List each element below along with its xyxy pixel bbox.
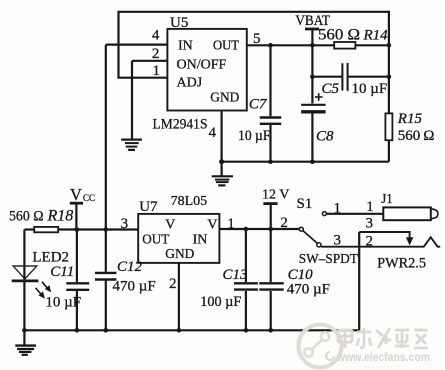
switch S1 pole contact bbox=[299, 227, 303, 231]
svg-text:U5: U5 bbox=[170, 15, 188, 31]
wire IN riser to Vcc rail bbox=[105, 45, 107, 272]
svg-text:560 Ω: 560 Ω bbox=[398, 128, 435, 144]
svg-text:2: 2 bbox=[280, 215, 288, 231]
op-amp U5 regulator box bbox=[167, 29, 246, 111]
svg-text:PWR2.5: PWR2.5 bbox=[377, 256, 426, 272]
label Vcc bbox=[70, 185, 95, 204]
wire U5 GND pin down bbox=[221, 111, 223, 177]
capacitor C8 plates bbox=[301, 105, 325, 112]
svg-text:1: 1 bbox=[153, 63, 161, 79]
svg-text:GND: GND bbox=[165, 247, 194, 262]
svg-text:J1: J1 bbox=[381, 192, 393, 207]
svg-text:VBAT: VBAT bbox=[295, 13, 330, 29]
power symbol 12V bbox=[263, 204, 277, 229]
wire R14 right to rail bbox=[355, 44, 389, 46]
wire ON/OFF pin 2 bbox=[132, 60, 167, 62]
wire ground rail of regulator section bbox=[222, 161, 389, 163]
watermark logo circle bbox=[299, 325, 342, 368]
capacitor C10 plates bbox=[259, 283, 283, 289]
svg-text:C13: C13 bbox=[223, 267, 248, 283]
power symbol Vcc bbox=[70, 203, 83, 229]
capacitor C11 upper lead bbox=[76, 230, 78, 283]
svg-text:1: 1 bbox=[366, 199, 374, 215]
capacitor C10 upper lead bbox=[270, 229, 272, 282]
capacitor C7 upper lead bbox=[269, 45, 271, 116]
svg-text:C8: C8 bbox=[316, 129, 334, 145]
svg-text:www.elecfans.com: www.elecfans.com bbox=[336, 352, 430, 364]
svg-text:IN: IN bbox=[178, 39, 193, 54]
switch S1 blade bbox=[303, 231, 317, 244]
wire C5 row right bbox=[349, 76, 389, 78]
wire top feedback rail bbox=[119, 11, 389, 13]
svg-text:R14: R14 bbox=[363, 28, 389, 44]
connector J1 barrel body bbox=[383, 207, 431, 220]
svg-text:GND: GND bbox=[210, 91, 239, 106]
power symbol VBAT bbox=[305, 29, 319, 45]
svg-text:V: V bbox=[165, 218, 175, 233]
wire Vcc rail left bbox=[24, 228, 34, 230]
svg-text:12 V: 12 V bbox=[262, 188, 289, 203]
plus sign of C8 bbox=[315, 93, 323, 101]
svg-text:10 µF: 10 µF bbox=[238, 128, 271, 144]
ground bottom-left bbox=[15, 346, 36, 355]
connector J1 barrel tip arc bbox=[431, 209, 438, 219]
svg-text:OUT: OUT bbox=[213, 39, 239, 54]
svg-text:4: 4 bbox=[209, 125, 217, 141]
wire right rail upper bbox=[388, 11, 390, 114]
svg-text:ADJ: ADJ bbox=[177, 76, 203, 91]
capacitor C11 lower lead bbox=[76, 291, 78, 330]
LED2 arrow 1 bbox=[42, 282, 51, 292]
wire S1 pin1 to J1 bbox=[326, 213, 383, 215]
capacitor C5 plates bbox=[342, 63, 347, 91]
resistor R14 bbox=[334, 42, 355, 49]
svg-text:ON/OFF: ON/OFF bbox=[177, 58, 227, 73]
wire LED branch upper bbox=[23, 230, 25, 267]
LED LED2 triangle bbox=[13, 266, 37, 279]
wire J1 pin3 switch contact with arrow bbox=[359, 232, 413, 245]
capacitor C7 plates bbox=[260, 118, 281, 124]
svg-text:3: 3 bbox=[121, 216, 129, 232]
svg-text:10 µF: 10 µF bbox=[45, 295, 81, 311]
wire left riser of feedback loop bbox=[117, 11, 119, 78]
wire J1 ground riser bbox=[358, 232, 360, 330]
svg-text:S1: S1 bbox=[297, 196, 313, 212]
svg-text:V: V bbox=[70, 185, 82, 204]
switch S1 throw contact pin 3 bbox=[317, 243, 321, 247]
wire VBAT node down to C8 bbox=[311, 45, 313, 103]
svg-text:4: 4 bbox=[152, 28, 160, 44]
LED2 arrow 2 bbox=[36, 288, 45, 298]
svg-text:C7: C7 bbox=[249, 97, 268, 113]
wire OUT pin 5 bbox=[247, 44, 334, 46]
wire C8 lower lead bbox=[311, 114, 313, 162]
capacitor C12 plates bbox=[95, 273, 116, 280]
wire IN pin 4 bbox=[106, 43, 168, 45]
wire S1 pin3 to J1 pin2 spring bbox=[321, 237, 440, 247]
capacitor C13 plates bbox=[234, 283, 258, 289]
svg-text:V: V bbox=[207, 218, 217, 233]
svg-text:10 µF: 10 µF bbox=[352, 81, 388, 97]
svg-text:LM2941S: LM2941S bbox=[153, 117, 208, 133]
wire U7 IN to switch bbox=[219, 228, 300, 230]
wire LED cathode down bbox=[23, 282, 25, 330]
watermark chinese characters bbox=[338, 328, 428, 348]
svg-text:78L05: 78L05 bbox=[171, 194, 208, 209]
svg-text:470 µF: 470 µF bbox=[287, 282, 330, 298]
svg-text:CC: CC bbox=[83, 193, 95, 203]
wire bottom ground rail bbox=[24, 329, 359, 331]
svg-text:R15: R15 bbox=[397, 111, 423, 127]
svg-text:C5: C5 bbox=[322, 81, 340, 97]
svg-text:560 Ω: 560 Ω bbox=[318, 27, 360, 44]
svg-text:SW–SPDT: SW–SPDT bbox=[299, 252, 358, 267]
wire Vcc rail to U7 bbox=[58, 228, 138, 230]
wire C5 row left bbox=[312, 76, 341, 78]
wire right rail lower bbox=[388, 140, 390, 162]
wire ADJ pin 1 bbox=[117, 77, 167, 79]
capacitor C13 upper lead bbox=[245, 229, 247, 282]
svg-text:OUT: OUT bbox=[142, 233, 169, 248]
svg-text:3: 3 bbox=[366, 216, 374, 232]
ground under U5 GND bbox=[212, 176, 233, 185]
svg-text:560 Ω: 560 Ω bbox=[9, 209, 44, 225]
svg-text:2: 2 bbox=[366, 234, 374, 250]
svg-text:C11: C11 bbox=[50, 264, 74, 280]
resistor R18 bbox=[34, 227, 58, 232]
LED2 cathode bar bbox=[12, 279, 39, 282]
svg-text:2: 2 bbox=[152, 46, 160, 62]
svg-text:2: 2 bbox=[169, 276, 177, 292]
capacitor C11 plates bbox=[66, 283, 89, 290]
svg-text:470 µF: 470 µF bbox=[113, 279, 156, 295]
svg-text:IN: IN bbox=[193, 233, 208, 248]
regulator U7 box bbox=[138, 214, 219, 263]
LED2 vertical through triangle bbox=[23, 266, 25, 281]
wire U7 GND down bbox=[178, 263, 180, 330]
svg-text:U7: U7 bbox=[139, 199, 158, 215]
ground under ON/OFF bbox=[121, 140, 142, 150]
capacitor C10 lower lead bbox=[270, 291, 272, 330]
svg-text:R18: R18 bbox=[47, 208, 74, 225]
capacitor C7 lower lead bbox=[269, 125, 271, 162]
wire C12 lower lead bbox=[105, 281, 107, 331]
wire ON/OFF to ground bbox=[131, 61, 133, 139]
switch S1 throw contact pin 1 bbox=[322, 212, 326, 216]
capacitor C13 lower lead bbox=[245, 291, 247, 330]
wire to bottom-left ground bbox=[23, 330, 25, 345]
resistor R15 bbox=[385, 113, 392, 140]
svg-text:100 µF: 100 µF bbox=[200, 294, 241, 310]
